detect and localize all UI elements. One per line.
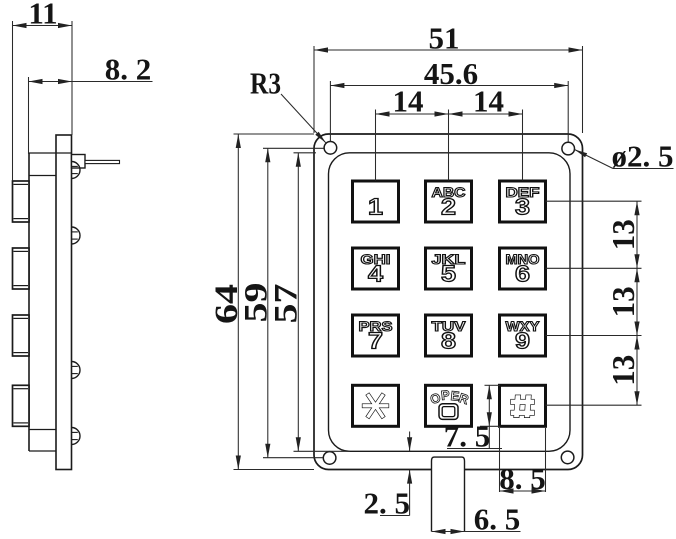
dimension 11 (side depth) bbox=[13, 0, 73, 181]
key 3 bbox=[500, 181, 546, 222]
key 8 bbox=[426, 315, 472, 356]
screw hole bottom-left bbox=[323, 452, 336, 465]
svg-text:57: 57 bbox=[269, 284, 305, 324]
screw hole bottom-right bbox=[561, 451, 574, 464]
front view outer panel bbox=[314, 134, 583, 470]
side view screw boss 4 bbox=[72, 428, 81, 445]
svg-text:9: 9 bbox=[515, 328, 530, 354]
svg-text:ø2. 5: ø2. 5 bbox=[612, 139, 674, 174]
side view key row 2 profile bbox=[13, 248, 30, 289]
svg-text:3: 3 bbox=[515, 194, 530, 220]
front view inner bezel bbox=[329, 153, 571, 452]
key 5 bbox=[426, 248, 472, 289]
dimension 6.5 (tab width) bbox=[432, 502, 521, 537]
dimension 8.5 (key width) bbox=[499, 428, 546, 496]
dimension 51 (panel width) bbox=[314, 21, 583, 134]
dimension 45.6 (hole spacing horizontal) bbox=[330, 56, 568, 142]
screw hole top-right bbox=[562, 142, 575, 155]
leader R3 (corner radius) bbox=[250, 66, 326, 143]
svg-text:51: 51 bbox=[429, 21, 460, 56]
svg-text:8: 8 bbox=[441, 328, 456, 354]
side view screw boss 1 bbox=[72, 162, 81, 179]
side view key row 3 profile bbox=[13, 315, 30, 356]
svg-text:R3: R3 bbox=[250, 66, 281, 101]
svg-text:13: 13 bbox=[605, 286, 641, 317]
svg-text:6: 6 bbox=[515, 261, 530, 287]
svg-text:7. 5: 7. 5 bbox=[444, 419, 491, 454]
dimension chain 13 13 13 (key row pitch) bbox=[546, 201, 642, 405]
svg-text:13: 13 bbox=[605, 355, 641, 386]
key * bbox=[353, 385, 399, 426]
svg-text:2. 5: 2. 5 bbox=[364, 486, 411, 521]
side view screw boss 3 bbox=[72, 362, 81, 379]
svg-text:2: 2 bbox=[441, 194, 456, 220]
key 0 bbox=[426, 385, 472, 426]
key 2 bbox=[426, 181, 472, 222]
side view screw boss 2 bbox=[72, 227, 81, 244]
svg-text:8. 2: 8. 2 bbox=[105, 52, 152, 87]
connector tab bottom bbox=[432, 457, 465, 531]
key 6 bbox=[500, 248, 546, 289]
svg-text:8. 5: 8. 5 bbox=[499, 461, 546, 496]
svg-text:5: 5 bbox=[441, 261, 456, 287]
dimension 8.2 (bezel depth) bbox=[29, 52, 153, 155]
dimension 14 14 (key column pitch) bbox=[376, 84, 523, 181]
svg-text:6. 5: 6. 5 bbox=[474, 502, 521, 537]
svg-text:11: 11 bbox=[28, 0, 57, 31]
side view rear housing bbox=[56, 135, 72, 470]
svg-text:14: 14 bbox=[393, 84, 424, 119]
svg-text:14: 14 bbox=[473, 84, 504, 119]
svg-text:1: 1 bbox=[368, 194, 383, 220]
key 7 bbox=[353, 315, 399, 356]
key 1 bbox=[353, 181, 399, 222]
leader diameter 2.5 (screw holes) bbox=[575, 139, 674, 174]
side view key row 4 profile bbox=[13, 385, 30, 426]
svg-text:45.6: 45.6 bbox=[424, 56, 478, 91]
svg-text:4: 4 bbox=[368, 261, 383, 287]
dimension 7.5 (key height) bbox=[444, 385, 502, 453]
svg-text:7: 7 bbox=[368, 328, 383, 354]
screw hole top-left bbox=[324, 142, 337, 155]
key 4 bbox=[353, 248, 399, 289]
key 9 bbox=[500, 315, 546, 356]
key # bbox=[500, 385, 546, 426]
dimension 59 (hole spacing vertical) bbox=[239, 148, 324, 457]
side view key row 1 profile bbox=[13, 181, 30, 222]
svg-text:13: 13 bbox=[605, 219, 641, 250]
side view front bezel bbox=[29, 153, 72, 451]
dimension 57 (bezel height) bbox=[269, 153, 351, 452]
side view connector pin bbox=[72, 155, 120, 169]
dimension 2.5 (bezel to edge) bbox=[364, 432, 413, 521]
dimension 64 (panel height) bbox=[209, 134, 314, 470]
